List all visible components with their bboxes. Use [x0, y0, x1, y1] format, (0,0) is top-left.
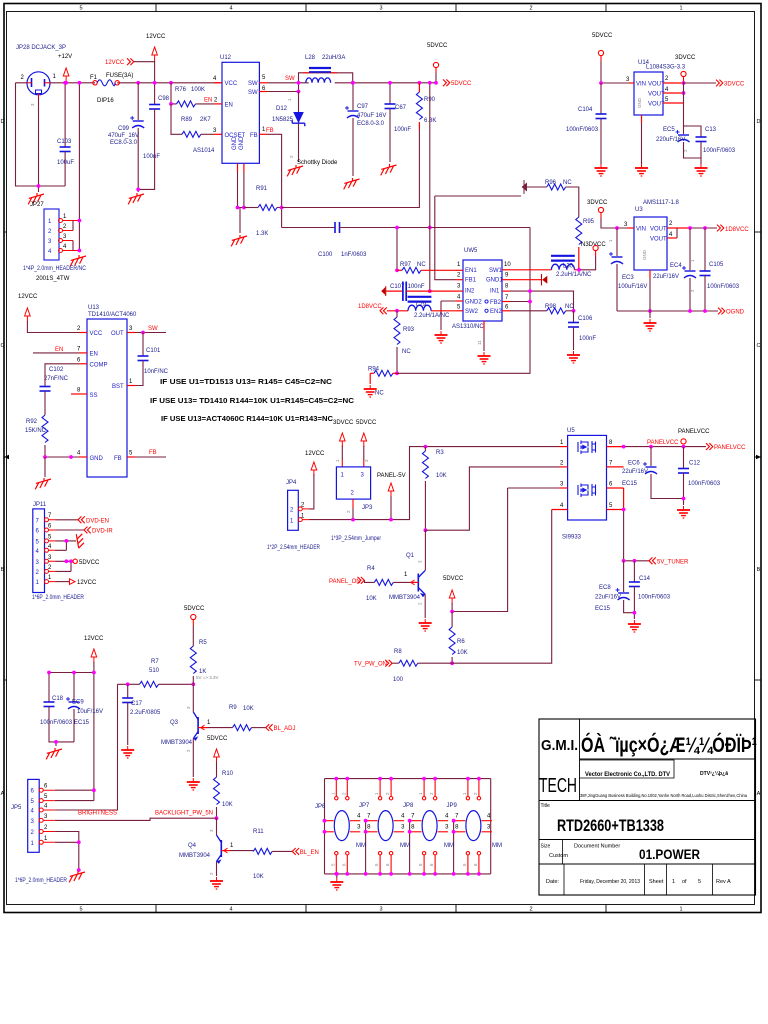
- capacitor C100: [282, 227, 335, 229]
- svg-text:3DVCC: 3DVCC: [724, 82, 745, 88]
- svg-text:R93: R93: [403, 327, 415, 333]
- svg-text:IF USE U13= TD1410 R144=10K: IF USE U13= TD1410 R144=10K U1=R145=C45=…: [150, 396, 355, 405]
- svg-text:R10: R10: [222, 771, 234, 777]
- svg-text:JP28 DCJACK_3P: JP28 DCJACK_3P: [16, 45, 66, 51]
- node jack gnd: [37, 184, 41, 188]
- svg-text:SW: SW: [248, 90, 258, 96]
- svg-text:1D8VCC: 1D8VCC: [358, 304, 382, 310]
- svg-text:EC15: EC15: [595, 606, 611, 612]
- wire OGND rail: [617, 310, 718, 312]
- svg-text:10K: 10K: [436, 473, 447, 479]
- capacitor C12: [683, 447, 685, 469]
- svg-text:10: 10: [504, 262, 511, 268]
- svg-text:EC9: EC9: [72, 700, 84, 706]
- svg-text:PANELVCC: PANELVCC: [647, 440, 679, 446]
- wire 3DVCC right: [684, 82, 717, 84]
- wire 5V_TUNER: [624, 510, 649, 561]
- svg-text:4: 4: [229, 907, 232, 913]
- svg-text:UW5: UW5: [464, 248, 478, 254]
- label 5DVCC chevron: [443, 79, 450, 86]
- capacitor EC8 polar: [623, 561, 625, 592]
- svg-text:JP4: JP4: [286, 480, 297, 486]
- svg-text:5DVCC: 5DVCC: [451, 81, 472, 87]
- svg-text:12VCC: 12VCC: [305, 451, 325, 457]
- ground jack: [28, 193, 44, 204]
- svg-text:EC5: EC5: [663, 127, 675, 133]
- connector JP8: [411, 777, 448, 876]
- wire pin1 12VCC: [56, 581, 70, 583]
- svg-text:Q3: Q3: [170, 720, 179, 726]
- ground EC8 C14: [628, 620, 641, 632]
- svg-text:PANELVCC: PANELVCC: [678, 429, 710, 435]
- svg-text:1: 1: [672, 879, 675, 885]
- svg-text:ÓÀ ˜ïµç×Ó¿Æ¼¼ÓÐÏÞ¹: ÓÀ ˜ïµç×Ó¿Æ¼¼ÓÐÏÞ¹: [581, 733, 757, 757]
- svg-text:Size: Size: [541, 844, 551, 850]
- svg-text:A: A: [757, 791, 761, 797]
- svg-text:C: C: [1, 343, 5, 349]
- svg-text:5: 5: [698, 879, 701, 885]
- svg-text:FB: FB: [266, 128, 274, 134]
- svg-text:D12: D12: [276, 106, 288, 112]
- svg-text:5DVCC: 5DVCC: [592, 33, 613, 39]
- capacitor C99 polar: [137, 83, 139, 120]
- transistor U5 mosfet B: [578, 484, 596, 498]
- svg-text:15K/NC: 15K/NC: [25, 428, 47, 434]
- ground C97: [344, 178, 360, 189]
- wire U12 gnd pins: [238, 172, 244, 233]
- svg-text:100uF/16V: 100uF/16V: [618, 284, 647, 290]
- svg-text:R7: R7: [151, 659, 159, 665]
- connector JP9: [455, 777, 492, 876]
- svg-text:Q1: Q1: [406, 553, 415, 559]
- svg-text:VIN: VIN: [636, 82, 646, 88]
- svg-text:C103: C103: [57, 139, 72, 145]
- svg-text:5DVCC: 5DVCC: [427, 43, 448, 49]
- svg-text:C100: C100: [318, 252, 333, 258]
- svg-text:C13: C13: [705, 127, 717, 133]
- svg-text:3DVCC: 3DVCC: [675, 55, 696, 61]
- wire pin3 pin2 5DVCC: [56, 561, 73, 571]
- svg-text:Custom: Custom: [549, 853, 568, 859]
- wire U14 gnd: [641, 123, 643, 164]
- svg-text:220uF/16V: 220uF/16V: [656, 137, 685, 143]
- pin stubs U12: [214, 83, 267, 172]
- svg-text:4: 4: [229, 6, 232, 12]
- svg-text:C99: C99: [118, 126, 130, 132]
- svg-text:2.2uH/1A/NC: 2.2uH/1A/NC: [414, 313, 450, 319]
- ground Q3: [187, 778, 200, 790]
- capacitor EC3 polar: [615, 226, 619, 230]
- svg-text:5: 5: [79, 907, 82, 913]
- capacitor C67: [389, 83, 391, 104]
- svg-text:NC: NC: [375, 391, 384, 397]
- svg-text:L29: L29: [416, 302, 427, 308]
- svg-text:L30: L30: [563, 264, 574, 270]
- svg-text:IF USE U13=ACT4060C R144=10K U: IF USE U13=ACT4060C R144=10K U1=R143=NC: [161, 414, 334, 423]
- svg-text:22uF/16V: 22uF/16V: [595, 595, 621, 601]
- ground U3: [644, 319, 657, 331]
- svg-text:5DVCC: 5DVCC: [184, 606, 205, 612]
- svg-text:100nF: 100nF: [408, 284, 425, 290]
- svg-text:SW: SW: [285, 76, 295, 82]
- svg-text:R8: R8: [394, 649, 402, 655]
- capacitor EC4 polar: [689, 228, 691, 270]
- svg-text:COMP: COMP: [90, 363, 108, 369]
- wire jack pin2 down: [16, 83, 66, 186]
- svg-text:C97: C97: [357, 104, 369, 110]
- capacitor C97 polar: [352, 83, 354, 110]
- svg-text:Document Number: Document Number: [574, 844, 620, 850]
- svg-text:JP3: JP3: [362, 505, 373, 511]
- wire JP4 pin2 12VCC: [309, 474, 314, 509]
- resistor R90: [390, 82, 436, 84]
- svg-text:10K: 10K: [253, 874, 264, 880]
- arrow GND1 right: [510, 279, 542, 281]
- svg-text:MM: MM: [492, 843, 502, 849]
- svg-text:JP27: JP27: [30, 202, 44, 208]
- capacitor C103: [64, 83, 66, 147]
- arrow C107 left: [385, 286, 387, 296]
- svg-text:AMS1117-1.8: AMS1117-1.8: [643, 200, 679, 206]
- svg-text:A: A: [1, 791, 5, 797]
- capacitor EC5 polar: [676, 130, 690, 142]
- arrow R96 left: [522, 183, 528, 192]
- svg-text:22uF/16V: 22uF/16V: [622, 469, 648, 475]
- wire JP5 pin4 BRIGHTNESS: [55, 684, 118, 810]
- svg-text:VOUT: VOUT: [648, 92, 665, 98]
- ground JP6 block: [336, 874, 338, 878]
- svg-text:L28: L28: [305, 55, 316, 61]
- svg-text:38F,JingGuang Business Build: 38F,JingGuang Business Building,No.1002,…: [580, 793, 747, 798]
- svg-text:Q4: Q4: [188, 843, 197, 849]
- svg-text:TECH: TECH: [539, 775, 577, 797]
- wire jack pin3 down: [38, 98, 40, 192]
- transistor U5 mosfet A: [578, 441, 596, 455]
- pin stubs UW5: [456, 270, 511, 330]
- svg-text:100nF/0603: 100nF/0603: [566, 127, 599, 133]
- svg-text:3DVCC: 3DVCC: [333, 420, 354, 426]
- pin stubs U5: [552, 447, 624, 510]
- svg-text:BL_EN: BL_EN: [300, 850, 319, 856]
- svg-text:100nF: 100nF: [143, 154, 160, 160]
- svg-text:GND: GND: [232, 136, 238, 150]
- svg-text:EN: EN: [55, 347, 63, 353]
- svg-text:470uF 16V: 470uF 16V: [357, 113, 386, 119]
- svg-text:Sheet: Sheet: [649, 879, 664, 885]
- ground Q4: [210, 877, 223, 889]
- svg-text:Schottky Diode: Schottky Diode: [297, 160, 338, 166]
- capacitor C106: [573, 311, 575, 323]
- svg-text:VOUT: VOUT: [650, 237, 667, 243]
- ground C98 C99: [128, 193, 144, 204]
- svg-text:D: D: [1, 119, 5, 125]
- label OGND chevron: [718, 308, 725, 315]
- svg-text:NC: NC: [417, 262, 426, 268]
- wire FB net: [267, 134, 282, 227]
- svg-text:12VCC: 12VCC: [77, 580, 97, 586]
- svg-text:BST: BST: [112, 384, 124, 390]
- svg-text:10K: 10K: [366, 596, 377, 602]
- svg-text:12VCC: 12VCC: [146, 34, 166, 40]
- svg-text:C104: C104: [578, 107, 593, 113]
- wire 1D8VCC out: [677, 228, 717, 238]
- wire PANELVCC out: [624, 446, 706, 448]
- svg-text:SW2: SW2: [465, 309, 479, 315]
- wire DVD-EN: [56, 519, 79, 521]
- svg-text:10K: 10K: [243, 706, 254, 712]
- svg-text:SW1: SW1: [489, 268, 503, 274]
- svg-text:GND: GND: [90, 456, 104, 462]
- svg-text:EN: EN: [204, 98, 212, 104]
- svg-text:100nF: 100nF: [579, 336, 596, 342]
- node 3DVCC out: [682, 81, 686, 85]
- svg-text:1D8VCC: 1D8VCC: [725, 227, 749, 233]
- svg-text:SS: SS: [90, 393, 98, 399]
- ground D12: [287, 165, 303, 176]
- svg-text:C18: C18: [52, 696, 64, 702]
- svg-text:C: C: [757, 343, 761, 349]
- wire GND2: [441, 301, 456, 330]
- svg-text:G.M.I.: G.M.I.: [541, 737, 578, 754]
- ground R94: [364, 385, 377, 397]
- ground JP27: [70, 255, 86, 266]
- svg-text:BRIGHTNESS: BRIGHTNESS: [78, 811, 117, 817]
- svg-text:JP5: JP5: [11, 805, 22, 811]
- wire JP5 pin6 pin5 12VCC: [55, 790, 94, 800]
- svg-text:5V_TUNER: 5V_TUNER: [657, 559, 689, 565]
- wire pin11 gnd: [483, 330, 485, 351]
- svg-text:VCC: VCC: [90, 331, 103, 337]
- svg-text:C102: C102: [49, 367, 64, 373]
- fuse F1: [93, 81, 97, 85]
- wire PANEL-5V rail: [309, 447, 559, 520]
- svg-text:FB: FB: [250, 133, 258, 139]
- svg-text:VOUT: VOUT: [648, 82, 665, 88]
- svg-text:2.2uF/0805: 2.2uF/0805: [130, 710, 161, 716]
- svg-text:3DVCC: 3DVCC: [587, 200, 608, 206]
- wire JP3 top pins: [342, 446, 364, 460]
- svg-text:100: 100: [393, 677, 404, 683]
- svg-text:1nF/0603: 1nF/0603: [341, 252, 367, 258]
- svg-text:5DVCC: 5DVCC: [207, 736, 228, 742]
- svg-text:Date:: Date:: [546, 879, 560, 885]
- svg-text:GND1: GND1: [486, 278, 503, 284]
- node column JP6/JP7: [357, 814, 371, 876]
- svg-text:R4: R4: [367, 566, 375, 572]
- svg-text:Rev A: Rev A: [716, 879, 731, 885]
- svg-text:EC6: EC6: [628, 461, 640, 467]
- svg-text:10K: 10K: [222, 802, 233, 808]
- svg-text:Title: Title: [541, 803, 550, 809]
- wire VIN: [601, 82, 629, 84]
- svg-text:B: B: [757, 567, 761, 573]
- svg-text:1*6P_2.0mm_HEADER: 1*6P_2.0mm_HEADER: [15, 878, 68, 884]
- jumper JP3: [336, 467, 370, 499]
- svg-text:MM: MM: [356, 843, 366, 849]
- svg-text:EC4: EC4: [670, 263, 682, 269]
- wire bottom rail: [325, 873, 491, 875]
- wire side rails: [325, 779, 491, 874]
- svg-text:2001S_4TW: 2001S_4TW: [36, 276, 70, 282]
- svg-text:1N5825: 1N5825: [272, 117, 294, 123]
- connector JP28 DC jack: [27, 72, 50, 95]
- svg-text:C17: C17: [131, 701, 143, 707]
- svg-text:U13: U13: [88, 305, 100, 311]
- wire FB2 return: [397, 228, 530, 374]
- svg-text:IN2: IN2: [465, 289, 475, 295]
- svg-text:10nF/NC: 10nF/NC: [144, 369, 169, 375]
- svg-text:AS1310/NC: AS1310/NC: [452, 324, 484, 330]
- svg-text:FB: FB: [149, 450, 157, 456]
- svg-text:SW: SW: [148, 326, 158, 332]
- svg-text:100uF: 100uF: [57, 160, 74, 166]
- svg-text:R11: R11: [253, 829, 264, 835]
- svg-text:C98: C98: [158, 96, 170, 102]
- svg-text:C101: C101: [146, 348, 161, 354]
- svg-text:27nF/NC: 27nF/NC: [44, 376, 69, 382]
- node dots left rail: [323, 819, 327, 823]
- capacitor C14: [633, 561, 635, 582]
- svg-text:MMBT3904: MMBT3904: [389, 595, 421, 601]
- svg-text:EC8.0-3.0: EC8.0-3.0: [110, 140, 138, 146]
- svg-text:EC3: EC3: [622, 275, 634, 281]
- svg-text:MMBT3904: MMBT3904: [161, 740, 193, 746]
- svg-text:NC: NC: [563, 180, 572, 186]
- label 3DVCC chevron: [716, 80, 723, 87]
- svg-text:BL_ADJ: BL_ADJ: [274, 726, 296, 732]
- svg-text:EN: EN: [225, 103, 233, 109]
- pin stubs U13: [71, 333, 135, 458]
- wire +12V rail: [16, 82, 223, 84]
- svg-text:5V => 3.3V: 5V => 3.3V: [196, 675, 219, 680]
- wire DVD-IR: [56, 529, 85, 531]
- wire JP5 pin2 pin1 gnd: [55, 832, 79, 871]
- svg-text:TD1410/ACT4060: TD1410/ACT4060: [88, 312, 137, 318]
- svg-text:100K: 100K: [191, 87, 205, 93]
- svg-text:12VCC: 12VCC: [84, 636, 104, 642]
- svg-text:F1: F1: [90, 75, 98, 81]
- wire FB1: [435, 196, 456, 280]
- svg-text:FB: FB: [114, 456, 122, 462]
- svg-text:1*4P_2.0mm_HEADER/NC: 1*4P_2.0mm_HEADER/NC: [23, 266, 87, 272]
- svg-text:FUSE(3A): FUSE(3A): [106, 73, 133, 79]
- svg-text:EC8: EC8: [599, 585, 611, 591]
- node column JP7/JP8: [401, 814, 415, 876]
- svg-text:1*6P_2.0mm_HEADER: 1*6P_2.0mm_HEADER: [32, 595, 85, 601]
- svg-text:R76: R76: [175, 87, 187, 93]
- svg-text:R6: R6: [457, 639, 465, 645]
- svg-text:11: 11: [477, 340, 482, 345]
- svg-text:GND: GND: [642, 249, 647, 260]
- svg-text:100nF/0603: 100nF/0603: [703, 148, 736, 154]
- ground C106: [567, 351, 580, 363]
- svg-text:3: 3: [379, 6, 382, 12]
- diode D12 schottky: [298, 92, 300, 113]
- svg-text:Friday, December 20, 2013: Friday, December 20, 2013: [580, 879, 640, 885]
- svg-text:GND: GND: [637, 97, 642, 108]
- svg-text:JP11: JP11: [33, 502, 47, 508]
- svg-text:5DVCC: 5DVCC: [79, 560, 100, 566]
- svg-text:RTD2660+TB1338: RTD2660+TB1338: [557, 816, 664, 835]
- svg-text:of: of: [682, 879, 687, 885]
- inductor L29: [408, 297, 432, 311]
- svg-text:100nF/0603: 100nF/0603: [688, 481, 721, 487]
- inductor L30: [551, 256, 575, 270]
- svg-text:5: 5: [79, 6, 82, 12]
- svg-text:U12: U12: [220, 55, 232, 61]
- svg-text:470uF_16V: 470uF_16V: [108, 133, 139, 139]
- svg-text:IF USE U1=TD1513 U13= R145=: IF USE U1=TD1513 U13= R145= C45=C2=NC: [160, 377, 333, 386]
- svg-text:2: 2: [529, 907, 532, 913]
- svg-text:L1084S3G-3.3: L1084S3G-3.3: [646, 65, 686, 71]
- wire cap rail: [49, 673, 94, 703]
- svg-text:12VCC: 12VCC: [18, 294, 38, 300]
- svg-text:R95: R95: [583, 219, 595, 225]
- svg-text:1: 1: [679, 907, 682, 913]
- svg-text:1*2P_2.54mm_HEADER: 1*2P_2.54mm_HEADER: [267, 545, 321, 551]
- ground C67: [381, 164, 397, 175]
- svg-text:JP6: JP6: [315, 804, 326, 810]
- capacitor EC9 polar: [66, 697, 80, 709]
- ground U12: [231, 235, 247, 246]
- pin leads JP28: [27, 83, 50, 98]
- svg-text:GND2: GND2: [465, 300, 482, 306]
- wire SW1 L30: [510, 269, 551, 271]
- svg-text:GND: GND: [239, 136, 245, 150]
- wire top rail: [325, 778, 491, 780]
- svg-text:C106: C106: [578, 316, 593, 322]
- ground C17: [121, 746, 134, 758]
- svg-text:1*3P_2.54mm_Jumper: 1*3P_2.54mm_Jumper: [331, 536, 381, 542]
- svg-text:EN1: EN1: [465, 268, 477, 274]
- svg-text:R9: R9: [229, 705, 237, 711]
- svg-text:EC15: EC15: [622, 481, 638, 487]
- svg-text:U5: U5: [567, 428, 575, 434]
- capacitor C98: [154, 103, 156, 106]
- ground EC5 C13: [695, 164, 708, 176]
- wire pin5 pin4 gnd: [56, 541, 77, 550]
- wire r96 row: [435, 195, 521, 197]
- connector JP6: [323, 777, 360, 876]
- svg-text:EC8.0-3.0: EC8.0-3.0: [357, 121, 385, 127]
- ground C18 EC9: [46, 748, 62, 759]
- svg-text:22uH/3A: 22uH/3A: [322, 55, 345, 61]
- svg-text:2K7: 2K7: [200, 117, 211, 123]
- capacitor EC6 polar: [650, 447, 652, 466]
- ground C104: [595, 164, 608, 176]
- svg-text:VOUT: VOUT: [650, 227, 667, 233]
- wire IN1: [510, 291, 574, 311]
- svg-text:EN: EN: [90, 352, 98, 358]
- svg-text:12VCC: 12VCC: [105, 60, 125, 66]
- svg-text:BACKLIGHT_PW_5N: BACKLIGHT_PW_5N: [155, 811, 213, 817]
- svg-text:DVD-EN: DVD-EN: [86, 518, 109, 524]
- svg-text:SI9933: SI9933: [562, 535, 582, 541]
- capacitor C17: [127, 684, 129, 698]
- svg-text:1: 1: [679, 6, 682, 12]
- svg-text:3: 3: [379, 907, 382, 913]
- svg-text:2.2uH/1A/NC: 2.2uH/1A/NC: [556, 272, 592, 278]
- svg-text:C67: C67: [395, 105, 407, 111]
- svg-text:01.POWER: 01.POWER: [639, 847, 700, 862]
- capacitor C104: [600, 83, 602, 114]
- wire gate row: [425, 467, 559, 530]
- svg-text:R5: R5: [199, 640, 207, 646]
- ground C12: [677, 506, 690, 518]
- svg-text:10uF/16V: 10uF/16V: [77, 709, 103, 715]
- zone mid markers: [4, 455, 9, 459]
- svg-text:DTV²¿¼þ¿â: DTV²¿¼þ¿â: [700, 770, 728, 777]
